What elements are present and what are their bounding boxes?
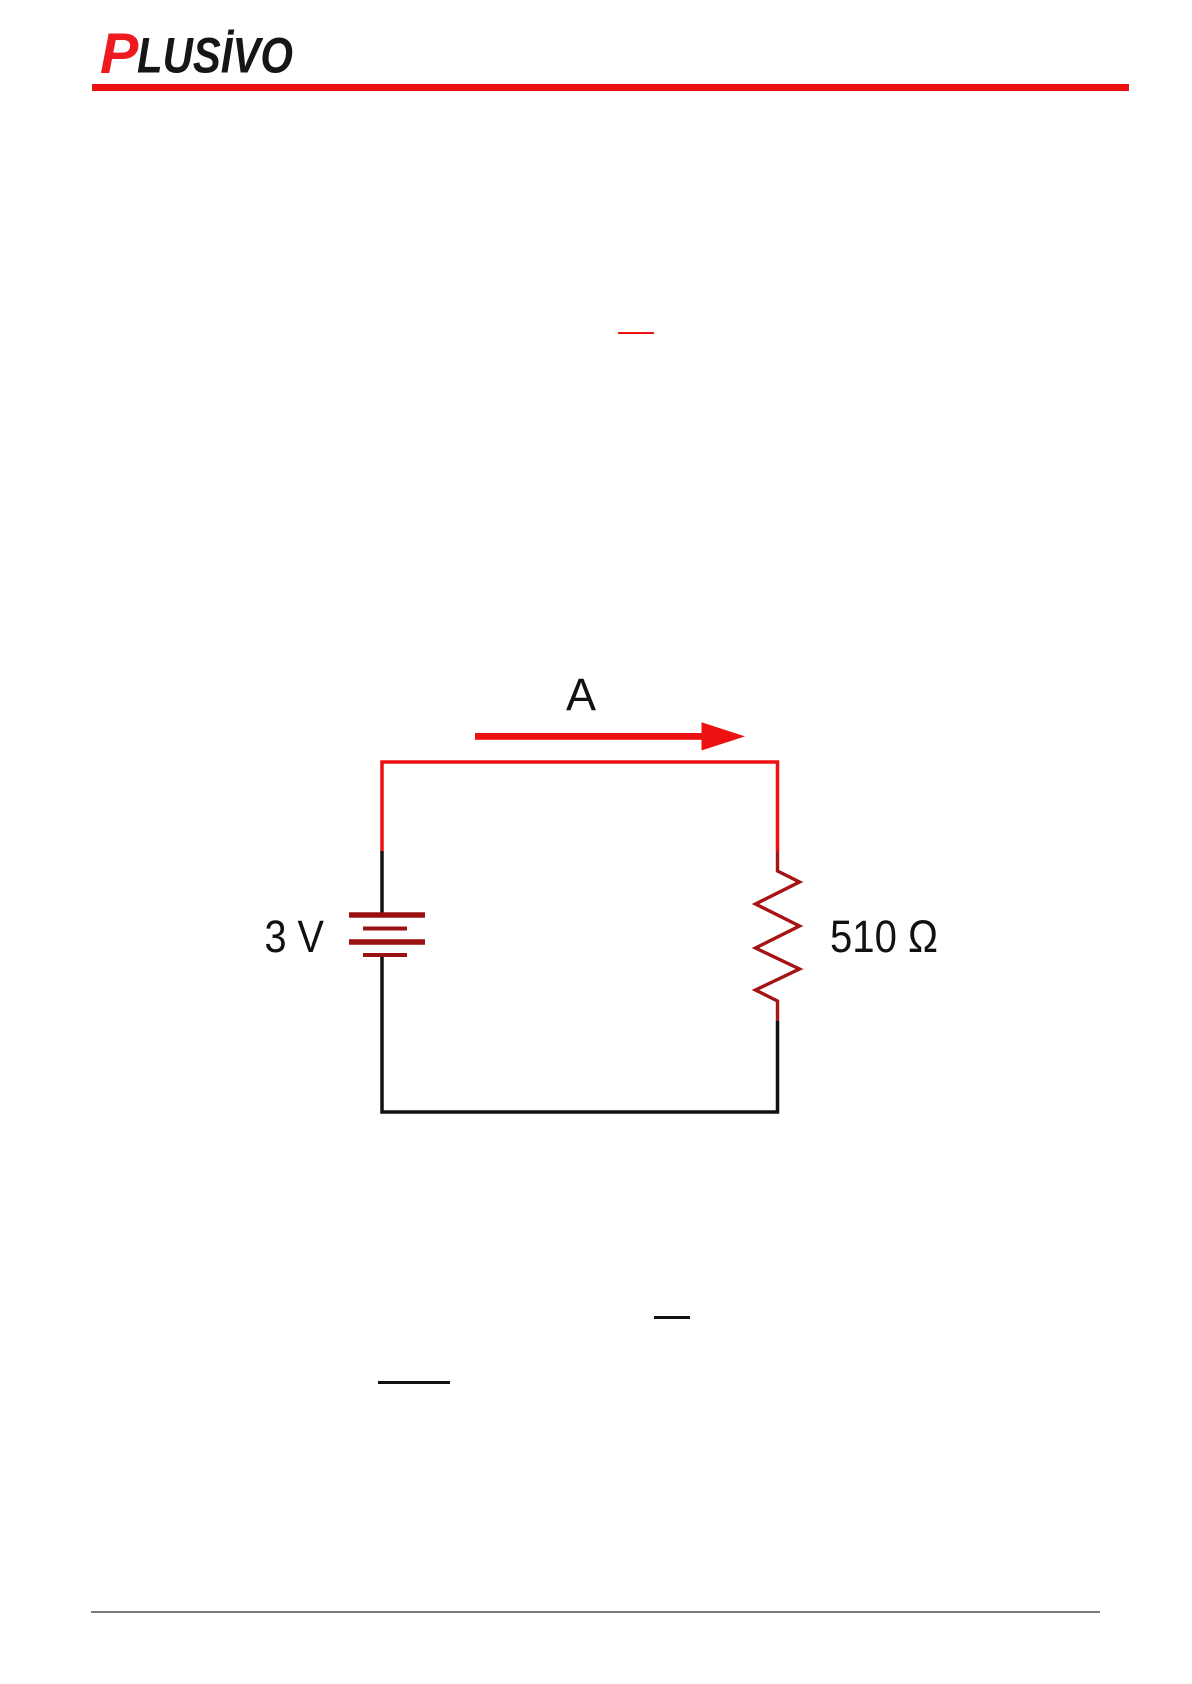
fraction bar (red, equation) (618, 332, 654, 335)
svg-text:P: P (100, 22, 139, 86)
battery B1 (349, 915, 425, 955)
footer rule (grey) (91, 1611, 1100, 1613)
wire left upper (black) (380, 851, 384, 913)
wire left lower + bottom (black) (382, 957, 778, 1112)
header rule (red) (92, 84, 1129, 91)
current arrow (475, 722, 745, 750)
svg-text:3 V: 3 V (265, 911, 325, 962)
fraction bar (black, equation 2) (378, 1381, 450, 1384)
svg-text:A: A (566, 669, 596, 720)
svg-text:510 Ω: 510 Ω (830, 911, 938, 962)
fraction bar (black, equation 1) (654, 1316, 690, 1319)
svg-text:LUSİVO: LUSİVO (137, 28, 293, 84)
resistor R1 (zigzag) (756, 852, 800, 1022)
wire top (red) (382, 762, 778, 852)
